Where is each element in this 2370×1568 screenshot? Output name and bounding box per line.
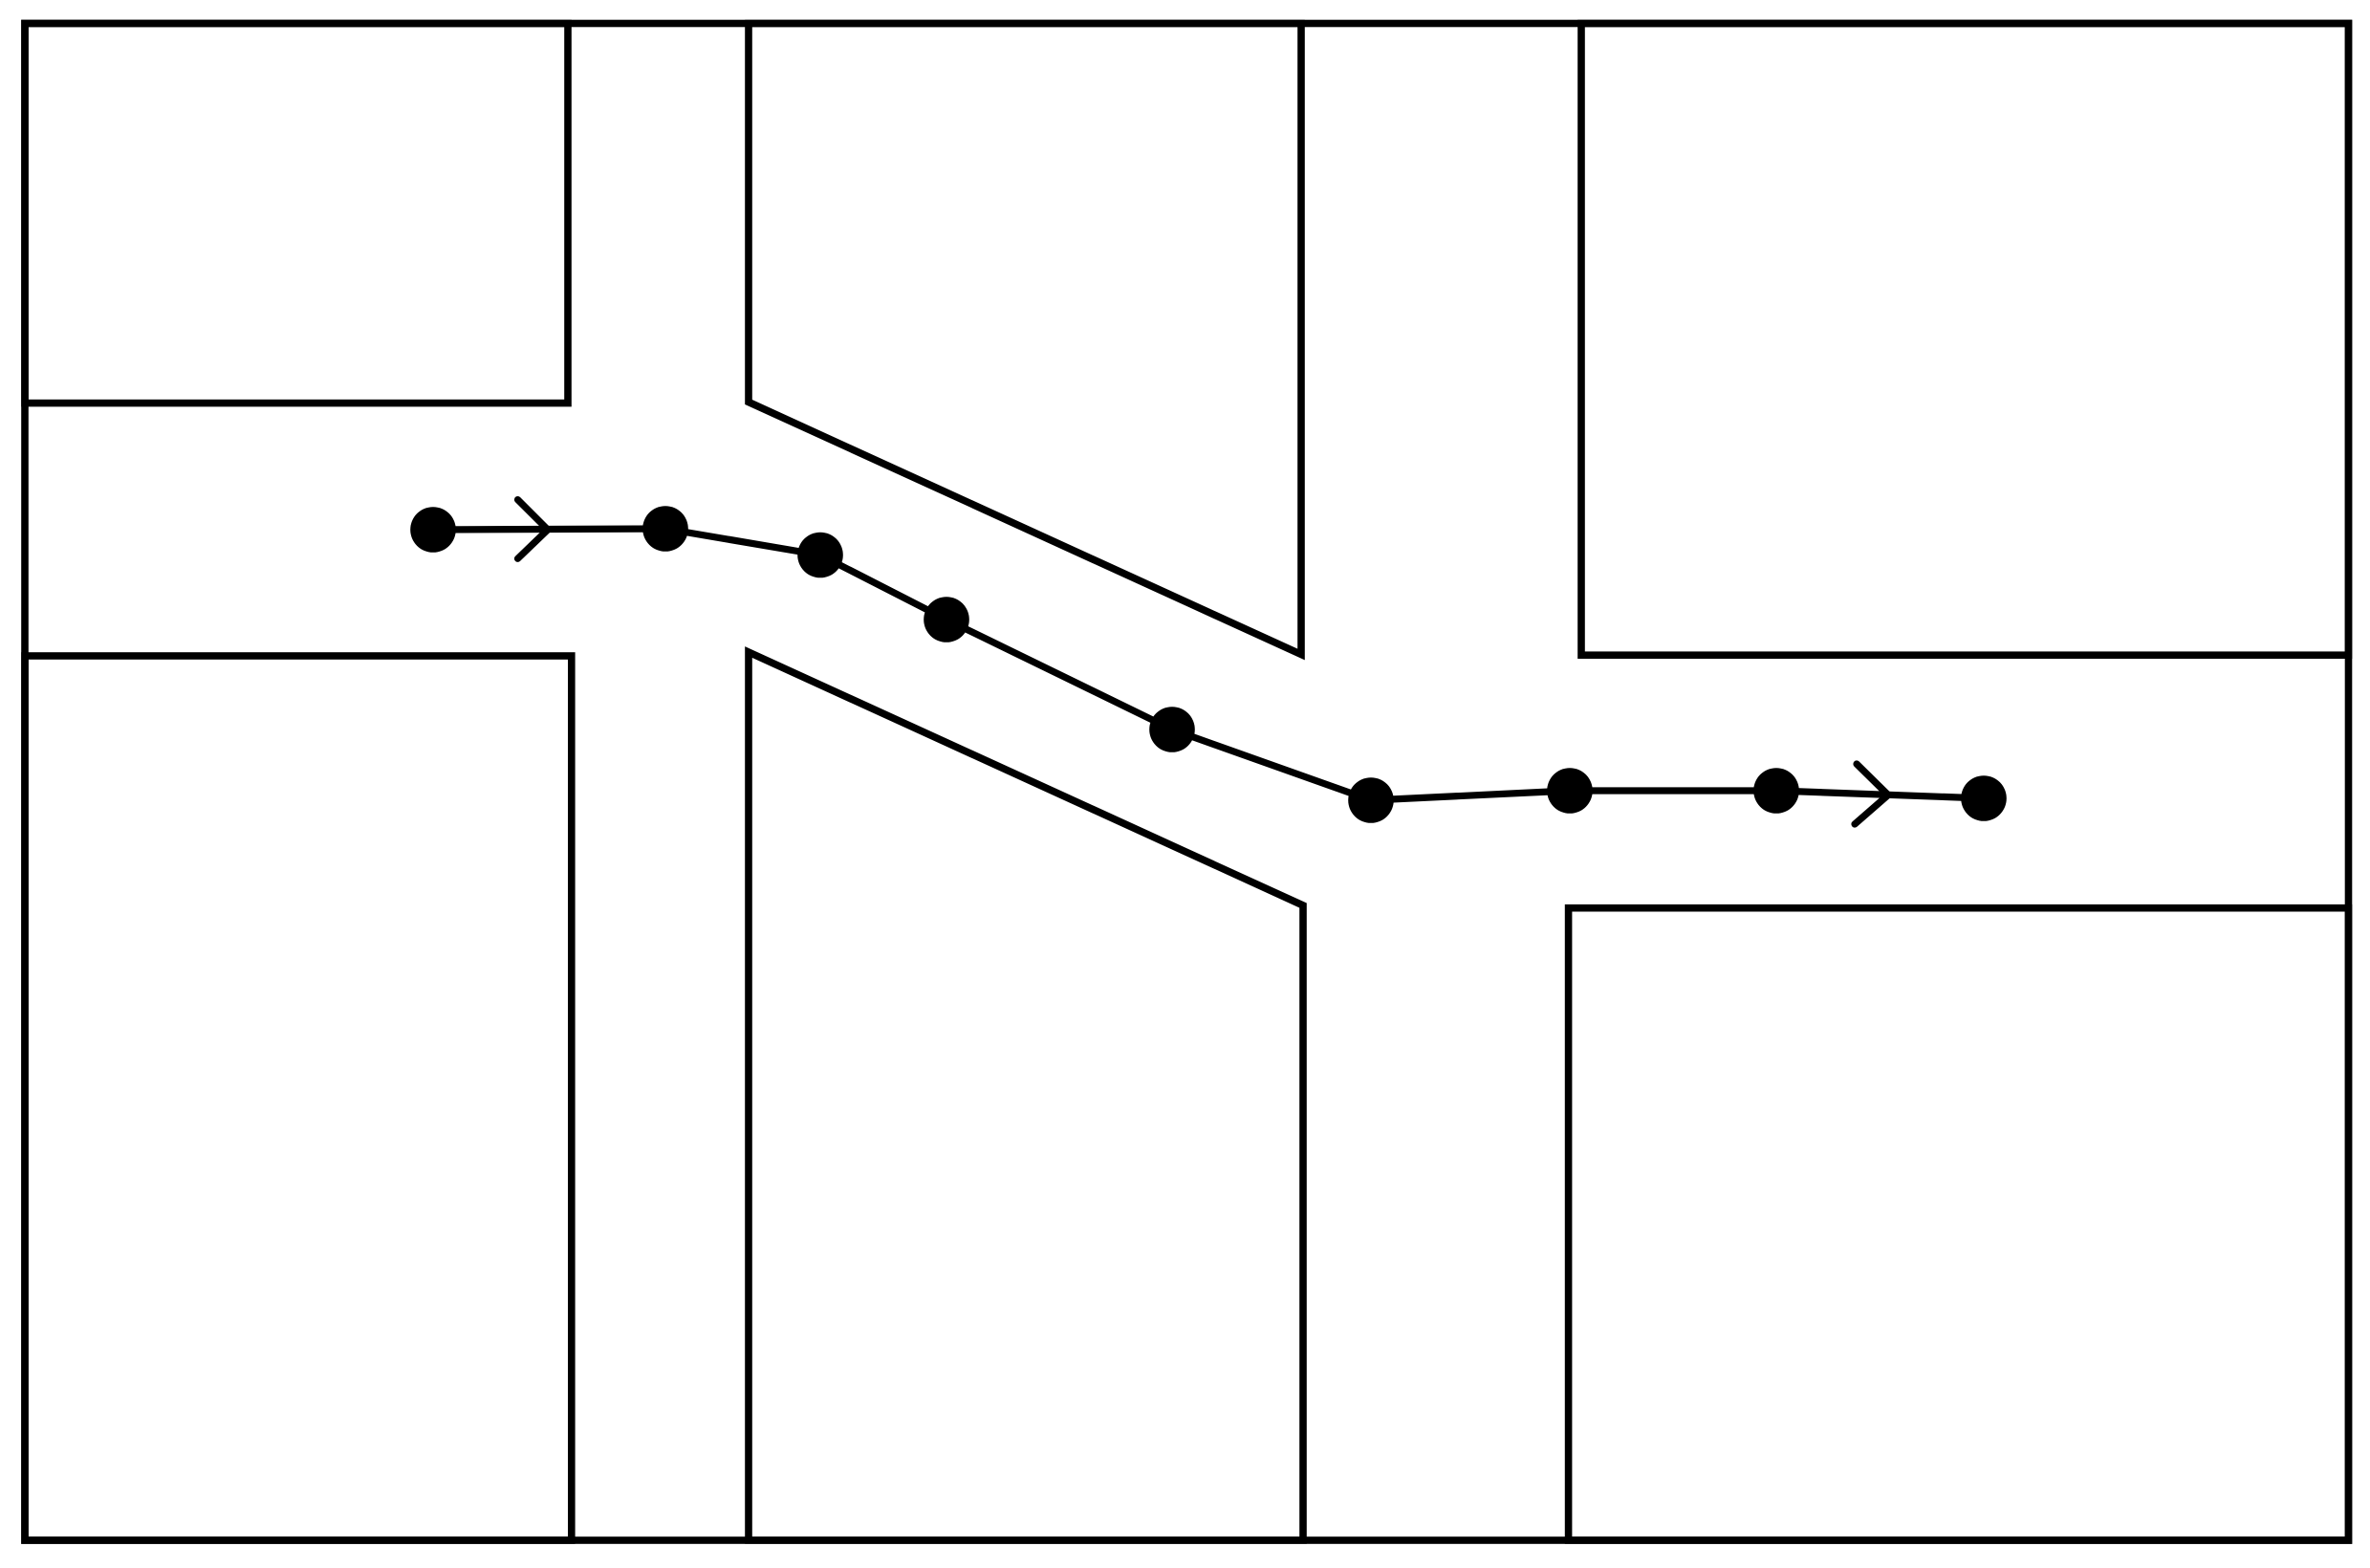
waypoint dot 8 (1753, 768, 1799, 814)
block bottom-left (25, 656, 572, 1540)
waypoint dot 6 (1348, 777, 1394, 823)
waypoint dot 5 (1149, 707, 1195, 752)
arrow 2 (1855, 764, 1888, 824)
waypoint dot 2 (642, 506, 688, 552)
block bottom-middle (749, 652, 1303, 1540)
block bottom-right (1569, 908, 2349, 1540)
block top-right (1581, 24, 2349, 656)
trajectory polyline (433, 529, 1984, 800)
waypoint dot 7 (1547, 768, 1593, 814)
waypoint dot 9 (1961, 775, 2007, 821)
block top-left (25, 24, 568, 403)
waypoint dot 1 (410, 507, 456, 553)
arrow 1 (518, 500, 549, 559)
waypoint dot 4 (924, 597, 969, 642)
block top-middle (749, 24, 1301, 655)
waypoint dot 3 (797, 533, 843, 578)
